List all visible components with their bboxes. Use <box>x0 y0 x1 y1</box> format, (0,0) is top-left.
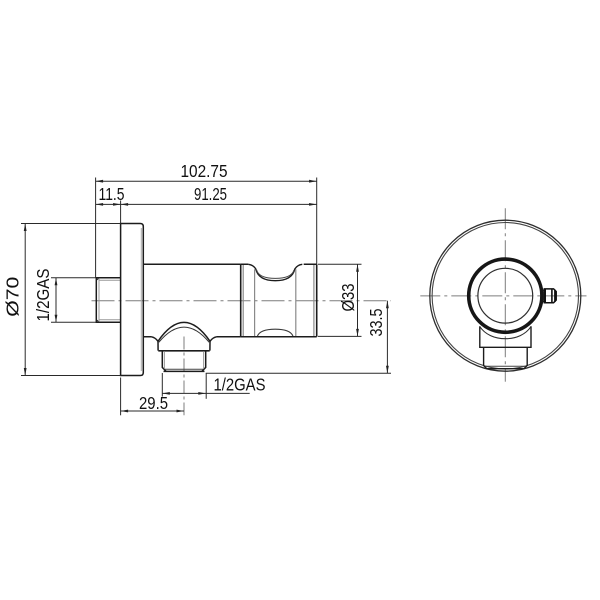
svg-text:Ø33: Ø33 <box>338 284 358 312</box>
flange face inner line <box>140 228 142 371</box>
wire outlet vertical centerline <box>183 337 185 416</box>
front bell arc <box>480 327 531 339</box>
body top edge <box>143 263 240 265</box>
front nipple inner line <box>486 365 526 367</box>
handle top edges <box>241 263 317 265</box>
flange side view <box>121 224 144 376</box>
wall nipple thread body <box>96 278 121 322</box>
body bottom edges <box>143 336 240 338</box>
front grip thick ring <box>469 259 542 332</box>
dimension 1/2GAS bottom <box>162 373 249 399</box>
front flange inner circle <box>432 223 578 369</box>
outlet bell inner arc <box>159 327 209 342</box>
outlet bell outer <box>151 322 217 350</box>
knob neck <box>543 290 545 301</box>
svg-text:1/2GAS: 1/2GAS <box>33 269 53 322</box>
handle bottom edge <box>241 336 317 338</box>
svg-text:33.5: 33.5 <box>366 309 386 337</box>
front inner circle <box>478 268 533 323</box>
outlet bell rim <box>158 350 209 352</box>
dimension 33.5 <box>206 301 391 374</box>
wire main horizontal centerline <box>92 300 392 302</box>
front nipple <box>484 347 528 368</box>
front view vertical centerline <box>504 208 506 381</box>
handle ring inner lines <box>243 265 314 336</box>
svg-text:1/2GAS: 1/2GAS <box>214 375 266 395</box>
svg-text:Ø70: Ø70 <box>3 277 23 317</box>
handle top concave inner <box>257 270 294 278</box>
wall nipple thread root lines <box>99 278 121 322</box>
dimension 29.5 <box>121 378 184 416</box>
dimension 1/2GAS left <box>51 278 96 322</box>
svg-text:91.25: 91.25 <box>194 184 227 204</box>
dimension D33 <box>318 264 362 336</box>
dimension D70 <box>21 224 121 376</box>
svg-text:11.5: 11.5 <box>99 184 125 204</box>
front view horizontal centerline <box>420 295 586 297</box>
handle end faces <box>241 264 317 336</box>
outlet nipple <box>162 351 205 372</box>
svg-text:102.75: 102.75 <box>181 161 228 181</box>
knob head <box>544 289 556 303</box>
handle top concave outer <box>248 264 302 280</box>
front skirt <box>480 326 531 347</box>
outlet nipple thread root verticals <box>164 351 203 369</box>
dimension 102.75 <box>96 178 317 278</box>
svg-text:29.5: 29.5 <box>139 393 168 413</box>
dimension 11.5 and 91.25 <box>96 201 317 224</box>
outlet nipple inner bottom line <box>165 368 203 370</box>
front flange outer circle <box>430 220 581 371</box>
handle bottom convex arc <box>257 329 293 336</box>
knob ridges <box>545 289 555 303</box>
